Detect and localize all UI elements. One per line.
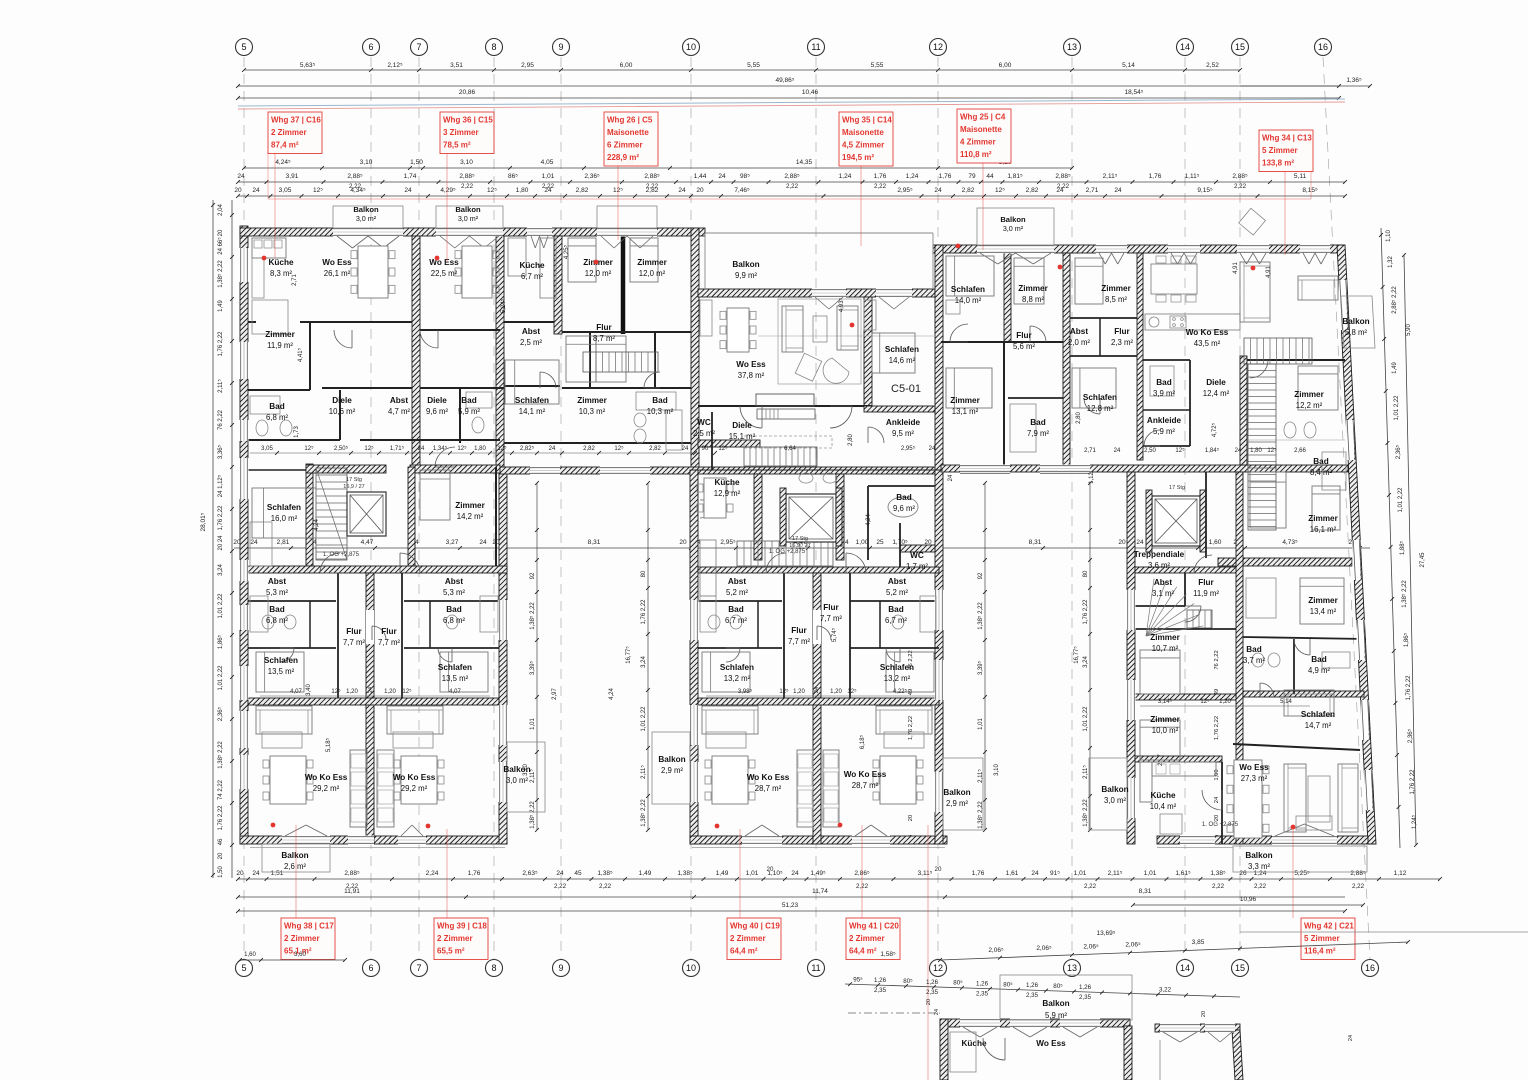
svg-text:13,2 m²: 13,2 m²: [724, 674, 751, 683]
svg-text:11: 11: [811, 42, 820, 52]
svg-text:13,5 m²: 13,5 m²: [442, 674, 469, 683]
svg-text:2,81: 2,81: [277, 539, 290, 546]
svg-text:12⁵: 12⁵: [402, 688, 412, 695]
left wing lower furniture: [256, 706, 312, 734]
svg-text:9,9 m²: 9,9 m²: [735, 271, 757, 280]
svg-text:1,01 2,22: 1,01 2,22: [1083, 706, 1089, 732]
svg-text:7,7 m²: 7,7 m²: [343, 638, 365, 647]
svg-text:10,46: 10,46: [802, 89, 819, 96]
svg-text:46: 46: [218, 838, 224, 845]
svg-text:133,8 m²: 133,8 m²: [1262, 159, 1294, 168]
svg-text:17 Stg: 17 Stg: [1169, 485, 1185, 491]
svg-text:Balkon: Balkon: [1042, 999, 1069, 1008]
svg-text:Wo Ess: Wo Ess: [429, 258, 459, 267]
svg-text:8,31: 8,31: [1029, 539, 1042, 546]
svg-text:24: 24: [1114, 187, 1122, 194]
mid wing bottom wall: [690, 836, 947, 844]
furniture left block top: [252, 238, 286, 258]
svg-text:1,76 2,22: 1,76 2,22: [1083, 599, 1089, 625]
svg-text:76 2,22: 76 2,22: [1214, 650, 1220, 669]
windows bottom wall mid wing: [742, 836, 782, 845]
svg-text:14,7 m²: 14,7 m²: [1305, 721, 1332, 730]
svg-text:1,86⁵: 1,86⁵: [1403, 632, 1410, 647]
central stair core: [737, 541, 833, 566]
svg-text:9,5 m²: 9,5 m²: [892, 429, 914, 438]
svg-text:4,07: 4,07: [290, 689, 302, 695]
balkon 2,9 mid wing right: [943, 758, 983, 830]
svg-text:1,71⁵: 1,71⁵: [390, 445, 405, 452]
svg-text:Schlafen: Schlafen: [951, 285, 985, 294]
svg-text:Balkon: Balkon: [1245, 851, 1272, 860]
svg-text:3,0 m²: 3,0 m²: [458, 214, 479, 223]
svg-text:3,10: 3,10: [994, 764, 1000, 776]
svg-text:98⁵: 98⁵: [740, 173, 750, 180]
svg-text:12,8 m²: 12,8 m²: [1087, 404, 1114, 413]
svg-text:Balkon: Balkon: [455, 205, 481, 214]
svg-text:20: 20: [696, 187, 704, 194]
svg-text:16,1 m²: 16,1 m²: [1310, 525, 1337, 534]
svg-text:37,8 m²: 37,8 m²: [738, 371, 765, 380]
svg-text:17 Stg: 17 Stg: [792, 536, 808, 542]
svg-text:Zimmer: Zimmer: [1150, 633, 1180, 642]
svg-text:1,01: 1,01: [746, 870, 759, 877]
svg-text:3,6 m²: 3,6 m²: [1148, 561, 1170, 570]
svg-text:24: 24: [404, 187, 412, 194]
svg-text:7,9 m²: 7,9 m²: [1027, 429, 1049, 438]
svg-text:43,5 m²: 43,5 m²: [1194, 339, 1221, 348]
svg-text:80⁵: 80⁵: [953, 980, 963, 987]
svg-text:3,40: 3,40: [306, 684, 312, 696]
svg-text:1,61⁵: 1,61⁵: [1175, 870, 1191, 877]
svg-text:6: 6: [368, 963, 373, 973]
svg-text:2,22: 2,22: [1084, 883, 1097, 890]
svg-text:13: 13: [1067, 42, 1077, 52]
svg-text:2,88⁵: 2,88⁵: [784, 173, 800, 180]
svg-text:Whg 41 | C20: Whg 41 | C20: [849, 922, 899, 931]
svg-text:Whg 40 | C19: Whg 40 | C19: [730, 922, 780, 931]
central bath: [888, 497, 918, 517]
svg-text:76 2,22: 76 2,22: [218, 409, 224, 430]
svg-text:16,9 / 27: 16,9 / 27: [343, 484, 364, 490]
svg-text:Balkon: Balkon: [1000, 215, 1026, 224]
svg-text:3,0 m²: 3,0 m²: [356, 214, 377, 223]
svg-text:2,95⁵: 2,95⁵: [897, 187, 913, 194]
svg-text:116,4 m²: 116,4 m²: [1304, 947, 1336, 956]
left wing right wall: [499, 470, 507, 844]
svg-text:5,74⁵: 5,74⁵: [831, 627, 838, 642]
svg-text:1,76 2,22: 1,76 2,22: [1410, 769, 1416, 795]
right block interior: [1004, 253, 1011, 342]
svg-text:2,22: 2,22: [1212, 883, 1225, 890]
svg-text:1,50: 1,50: [218, 866, 224, 878]
right wing left wall: [1127, 472, 1135, 844]
svg-text:Flur: Flur: [1198, 578, 1214, 587]
svg-text:2,71: 2,71: [1086, 187, 1099, 194]
svg-text:5,18⁵: 5,18⁵: [325, 737, 332, 752]
svg-text:8,8 m²: 8,8 m²: [1022, 295, 1044, 304]
svg-text:1,38⁵: 1,38⁵: [1210, 870, 1226, 877]
svg-text:12,9 m²: 12,9 m²: [714, 489, 741, 498]
svg-text:3,0 m²: 3,0 m²: [506, 776, 528, 785]
zimmer 14,2 walls: [408, 467, 415, 566]
grid axis bubbles: [236, 39, 253, 56]
svg-text:24: 24: [934, 187, 942, 194]
svg-text:29,2 m²: 29,2 m²: [313, 784, 340, 793]
svg-text:20: 20: [234, 187, 242, 194]
svg-text:2,0 m²: 2,0 m²: [1068, 338, 1090, 347]
right wing partitions: [1135, 567, 1240, 573]
svg-text:16,0 m²: 16,0 m²: [271, 514, 298, 523]
svg-text:24: 24: [948, 474, 954, 481]
svg-text:2,80: 2,80: [1076, 412, 1082, 424]
interior walls left block: [412, 236, 420, 467]
windows courtyard top walls: [530, 467, 560, 475]
svg-text:1,61: 1,61: [1006, 870, 1019, 877]
svg-text:2,80: 2,80: [848, 434, 854, 446]
svg-text:8,5 m²: 8,5 m²: [1105, 295, 1127, 304]
balkon 5,8 right block: [1341, 296, 1375, 348]
svg-text:12,4 m²: 12,4 m²: [1203, 389, 1230, 398]
svg-text:20: 20: [767, 866, 774, 873]
red apartment label boxes: [268, 112, 322, 154]
svg-text:2,06⁵: 2,06⁵: [1083, 943, 1099, 950]
svg-text:2,82: 2,82: [583, 446, 595, 452]
svg-text:5,2 m²: 5,2 m²: [726, 588, 748, 597]
svg-text:3,24: 3,24: [218, 564, 224, 576]
svg-text:WC: WC: [697, 418, 711, 427]
svg-text:9,6 m²: 9,6 m²: [426, 407, 448, 416]
svg-text:5,9 m²: 5,9 m²: [458, 407, 480, 416]
svg-text:15: 15: [1235, 963, 1245, 973]
svg-text:2,82: 2,82: [576, 187, 589, 194]
svg-text:8: 8: [491, 963, 496, 973]
balcony rails top: [333, 206, 403, 228]
svg-text:10: 10: [686, 963, 696, 973]
svg-text:Wo Ko Ess: Wo Ko Ess: [305, 773, 348, 782]
svg-text:Balkon: Balkon: [732, 260, 759, 269]
svg-text:2,06⁵: 2,06⁵: [1036, 945, 1052, 952]
svg-text:Whg 37 | C16: Whg 37 | C16: [271, 116, 321, 125]
svg-text:1. OG +2,875: 1. OG +2,875: [769, 549, 806, 555]
svg-text:28,7 m²: 28,7 m²: [852, 781, 879, 790]
svg-text:Whg 38 | C17: Whg 38 | C17: [284, 922, 334, 931]
svg-text:24: 24: [718, 173, 726, 180]
svg-text:Abst: Abst: [390, 396, 408, 405]
svg-text:1,76 2,22: 1,76 2,22: [641, 599, 647, 625]
svg-text:194,5 m²: 194,5 m²: [842, 153, 874, 162]
svg-text:12: 12: [933, 963, 943, 973]
svg-text:3,11⁵: 3,11⁵: [918, 870, 933, 877]
svg-text:2,95: 2,95: [521, 62, 534, 69]
svg-text:4,91: 4,91: [1266, 266, 1272, 278]
svg-text:86⁵: 86⁵: [508, 173, 518, 180]
svg-text:1,01 2,22: 1,01 2,22: [641, 706, 647, 732]
svg-text:4,5 Zimmer: 4,5 Zimmer: [842, 141, 884, 150]
svg-text:Bad: Bad: [269, 402, 284, 411]
svg-text:5,8 m²: 5,8 m²: [1345, 328, 1367, 337]
svg-text:1,26: 1,26: [1079, 984, 1092, 991]
svg-text:2,22: 2,22: [874, 183, 887, 190]
door arcs: [334, 330, 352, 348]
svg-text:1,81⁵: 1,81⁵: [1007, 173, 1023, 180]
svg-text:Abst: Abst: [522, 327, 540, 336]
svg-text:7: 7: [416, 42, 421, 52]
svg-text:1,38⁵ 2,22: 1,38⁵ 2,22: [529, 602, 536, 630]
svg-text:3,1 m²: 3,1 m²: [1152, 589, 1174, 598]
svg-text:24: 24: [791, 870, 799, 877]
svg-text:3,60: 3,60: [294, 952, 306, 958]
svg-text:15,1 m²: 15,1 m²: [729, 432, 756, 441]
svg-text:Zimmer: Zimmer: [637, 258, 667, 267]
svg-text:26: 26: [1239, 870, 1247, 877]
svg-text:Zimmer: Zimmer: [577, 396, 607, 405]
svg-text:1,38⁵ 2,22: 1,38⁵ 2,22: [977, 602, 984, 630]
svg-text:90: 90: [702, 446, 709, 452]
svg-text:11: 11: [811, 963, 820, 973]
svg-text:11,74: 11,74: [812, 888, 828, 895]
svg-text:2,11⁵: 2,11⁵: [640, 765, 647, 779]
svg-text:49,86⁵: 49,86⁵: [776, 77, 795, 84]
svg-text:22,5 m²: 22,5 m²: [431, 269, 458, 278]
windows right slant wall: [1339, 280, 1347, 330]
svg-text:80⁵: 80⁵: [903, 978, 913, 985]
svg-text:2,35: 2,35: [976, 991, 989, 998]
windows central recessed wall: [812, 289, 846, 298]
svg-text:Bad: Bad: [446, 605, 461, 614]
windows top wall right block: [977, 245, 1054, 254]
svg-text:2,5 m²: 2,5 m²: [693, 429, 715, 438]
svg-text:5,6 m²: 5,6 m²: [1013, 342, 1035, 351]
svg-text:10: 10: [686, 42, 696, 52]
svg-text:2,88⁵ 2,22: 2,88⁵ 2,22: [1391, 286, 1398, 314]
top dimension chains: [244, 69, 1240, 71]
svg-text:20 24: 20 24: [218, 535, 224, 551]
right margin dims: [1381, 228, 1400, 848]
svg-text:3,36⁵: 3,36⁵: [217, 444, 224, 459]
svg-text:3 Zimmer: 3 Zimmer: [443, 128, 479, 137]
svg-text:12⁵: 12⁵: [304, 445, 314, 452]
svg-text:3,10: 3,10: [360, 159, 373, 166]
svg-text:1,49: 1,49: [639, 870, 652, 877]
svg-text:2,88⁵: 2,88⁵: [347, 173, 363, 180]
svg-text:Zimmer: Zimmer: [265, 330, 295, 339]
balkon 2,6 bottom left: [262, 844, 330, 872]
svg-text:Diele: Diele: [1206, 378, 1226, 387]
svg-text:12⁵: 12⁵: [364, 445, 374, 452]
svg-text:Diele: Diele: [427, 396, 447, 405]
svg-text:16,77⁵: 16,77⁵: [1073, 646, 1080, 664]
svg-text:2,36⁵: 2,36⁵: [1395, 444, 1402, 459]
svg-text:1,50: 1,50: [410, 159, 423, 166]
svg-text:20: 20: [679, 539, 687, 546]
svg-text:Abst: Abst: [1154, 578, 1172, 587]
svg-text:16,77⁵: 16,77⁵: [625, 646, 632, 664]
svg-text:Wo Ess: Wo Ess: [736, 360, 766, 369]
svg-text:2 Zimmer: 2 Zimmer: [849, 934, 885, 943]
svg-text:Ankleide: Ankleide: [1147, 416, 1182, 425]
svg-text:Wo Ko Ess: Wo Ko Ess: [1186, 328, 1229, 337]
svg-text:Bad: Bad: [269, 605, 284, 614]
svg-text:2,22: 2,22: [461, 183, 474, 190]
svg-text:45: 45: [574, 870, 582, 877]
svg-text:2,88⁵: 2,88⁵: [644, 173, 660, 180]
svg-text:1,80: 1,80: [1250, 448, 1262, 454]
svg-text:6,00: 6,00: [620, 62, 633, 69]
svg-text:3,51: 3,51: [450, 62, 463, 69]
svg-text:Abst: Abst: [445, 577, 463, 586]
svg-text:2,24: 2,24: [426, 870, 439, 877]
svg-text:Flur: Flur: [381, 627, 397, 636]
svg-text:Zimmer: Zimmer: [1308, 596, 1338, 605]
right wing furniture: [1140, 762, 1152, 802]
svg-text:2,36⁵: 2,36⁵: [217, 706, 224, 721]
left block / central divider wall: [691, 228, 699, 470]
svg-text:Schlafen: Schlafen: [880, 663, 914, 672]
svg-text:4,91: 4,91: [1233, 262, 1239, 274]
svg-text:Whg 34 | C13: Whg 34 | C13: [1262, 134, 1312, 143]
zimmer 14,2 bed: [420, 470, 450, 520]
svg-text:Bad: Bad: [1156, 378, 1171, 387]
svg-text:65,5 m²: 65,5 m²: [437, 947, 465, 956]
svg-text:2,82: 2,82: [962, 187, 975, 194]
svg-text:10,96: 10,96: [1240, 896, 1257, 903]
svg-text:24: 24: [1136, 539, 1144, 546]
svg-text:2,35: 2,35: [1079, 994, 1092, 1001]
svg-text:8,31: 8,31: [588, 539, 601, 546]
svg-text:12: 12: [933, 42, 943, 52]
svg-text:1,38⁵ 2,22: 1,38⁵ 2,22: [1401, 580, 1408, 608]
svg-text:12⁵: 12⁵: [457, 445, 467, 452]
svg-text:3,98⁵: 3,98⁵: [738, 688, 753, 695]
svg-text:Flur: Flur: [791, 626, 807, 635]
svg-text:Bad: Bad: [728, 605, 743, 614]
svg-text:92: 92: [978, 572, 984, 579]
svg-text:24: 24: [418, 446, 425, 452]
svg-text:20: 20: [908, 815, 914, 821]
svg-text:14,35: 14,35: [796, 159, 813, 166]
svg-text:80: 80: [1083, 570, 1089, 577]
svg-text:1,76 2,22: 1,76 2,22: [218, 331, 224, 357]
svg-text:4,24: 4,24: [314, 519, 320, 531]
svg-text:2,6 m²: 2,6 m²: [284, 862, 306, 871]
svg-text:1,76 2,22: 1,76 2,22: [1406, 675, 1412, 701]
windows left exterior wall: [240, 248, 249, 282]
svg-text:4,05: 4,05: [541, 159, 554, 166]
svg-text:1,12: 1,12: [1394, 870, 1407, 877]
svg-text:6,7 m²: 6,7 m²: [521, 272, 543, 281]
svg-text:2,04: 2,04: [218, 204, 224, 216]
svg-text:1,38⁵ 2,22: 1,38⁵ 2,22: [640, 799, 647, 827]
svg-text:20: 20: [1201, 1011, 1207, 1017]
svg-text:79: 79: [968, 173, 976, 180]
svg-text:Balkon: Balkon: [1342, 317, 1369, 326]
svg-text:3,7 m²: 3,7 m²: [1243, 656, 1265, 665]
svg-text:2 Zimmer: 2 Zimmer: [284, 934, 320, 943]
svg-text:24: 24: [934, 1009, 940, 1015]
red apartment boundary line: [268, 198, 1311, 200]
svg-text:2,82⁵: 2,82⁵: [520, 445, 535, 452]
schlafen 14,6 bed: [872, 333, 915, 373]
svg-text:20: 20: [236, 870, 244, 877]
svg-text:2,22: 2,22: [786, 183, 799, 190]
svg-text:Ankleide: Ankleide: [886, 418, 921, 427]
svg-text:24 1,12⁵: 24 1,12⁵: [217, 474, 224, 497]
svg-text:3,0 m²: 3,0 m²: [1104, 796, 1126, 805]
svg-text:1,12: 1,12: [1089, 472, 1095, 484]
svg-text:Zimmer: Zimmer: [455, 501, 485, 510]
svg-text:24: 24: [929, 446, 936, 452]
stair flur 8,7: [583, 352, 658, 372]
svg-text:Wo Ko Ess: Wo Ko Ess: [844, 770, 887, 779]
svg-text:Whg 36 | C15: Whg 36 | C15: [443, 116, 493, 125]
svg-text:9,15⁵: 9,15⁵: [1197, 187, 1213, 194]
svg-text:3,10: 3,10: [460, 159, 473, 166]
svg-text:1,26: 1,26: [1026, 982, 1039, 989]
svg-text:24 66⁵: 24 66⁵: [217, 237, 224, 255]
svg-text:8,15⁵: 8,15⁵: [1302, 187, 1318, 194]
svg-text:1,76: 1,76: [874, 173, 887, 180]
svg-text:12,0 m²: 12,0 m²: [585, 269, 612, 278]
svg-text:8,31: 8,31: [1139, 888, 1152, 895]
svg-text:2 Zimmer: 2 Zimmer: [730, 934, 766, 943]
svg-text:1,76 2,22: 1,76 2,22: [908, 716, 914, 740]
svg-text:2,71: 2,71: [292, 274, 298, 286]
svg-text:1,38⁵: 1,38⁵: [677, 870, 693, 877]
mid wing right wall / central right wall: [935, 245, 943, 844]
svg-text:1,7 m²: 1,7 m²: [906, 562, 928, 571]
svg-text:3,22: 3,22: [1159, 987, 1172, 994]
svg-text:1,60: 1,60: [244, 952, 256, 958]
svg-text:4,41⁵: 4,41⁵: [297, 347, 304, 362]
mid wing partitions: [698, 567, 939, 573]
svg-text:20: 20: [935, 866, 942, 873]
svg-text:1,38⁵ 2,22: 1,38⁵ 2,22: [217, 741, 224, 769]
svg-text:12,0 m²: 12,0 m²: [639, 269, 666, 278]
svg-text:1,58⁵: 1,58⁵: [880, 951, 896, 958]
svg-text:12⁵: 12⁵: [1175, 447, 1185, 454]
bottom wall left wing: [240, 836, 507, 844]
svg-text:6: 6: [368, 42, 373, 52]
svg-text:Schlafen: Schlafen: [264, 656, 298, 665]
svg-text:6,8 m²: 6,8 m²: [443, 616, 465, 625]
svg-text:Bad: Bad: [896, 493, 911, 502]
svg-text:24: 24: [814, 687, 820, 693]
svg-text:20: 20: [218, 229, 224, 236]
svg-text:1,32: 1,32: [1388, 256, 1394, 268]
central living furniture: [727, 308, 749, 352]
svg-text:1,49⁵: 1,49⁵: [810, 870, 826, 877]
svg-text:14,1 m²: 14,1 m²: [519, 407, 546, 416]
svg-text:5: 5: [241, 42, 246, 52]
svg-text:1,01 2,22: 1,01 2,22: [1398, 487, 1404, 513]
courtyard dims: [536, 483, 538, 830]
svg-text:26,1 m²: 26,1 m²: [324, 269, 351, 278]
svg-text:6,8 m²: 6,8 m²: [266, 616, 288, 625]
svg-text:24: 24: [682, 446, 689, 452]
top wall left block: [240, 228, 705, 236]
svg-text:28,7 m²: 28,7 m²: [755, 784, 782, 793]
svg-text:16: 16: [1318, 42, 1328, 52]
svg-text:3,85: 3,85: [1192, 939, 1205, 946]
svg-text:6,00: 6,00: [999, 62, 1012, 69]
svg-text:1,73: 1,73: [294, 426, 300, 438]
svg-text:10,0 m²: 10,0 m²: [1152, 726, 1179, 735]
svg-text:1,01: 1,01: [542, 173, 555, 180]
svg-text:64,4 m²: 64,4 m²: [730, 947, 758, 956]
svg-text:2,36⁵: 2,36⁵: [584, 173, 600, 180]
svg-text:2,35: 2,35: [926, 989, 939, 996]
svg-text:Flur: Flur: [1114, 327, 1130, 336]
